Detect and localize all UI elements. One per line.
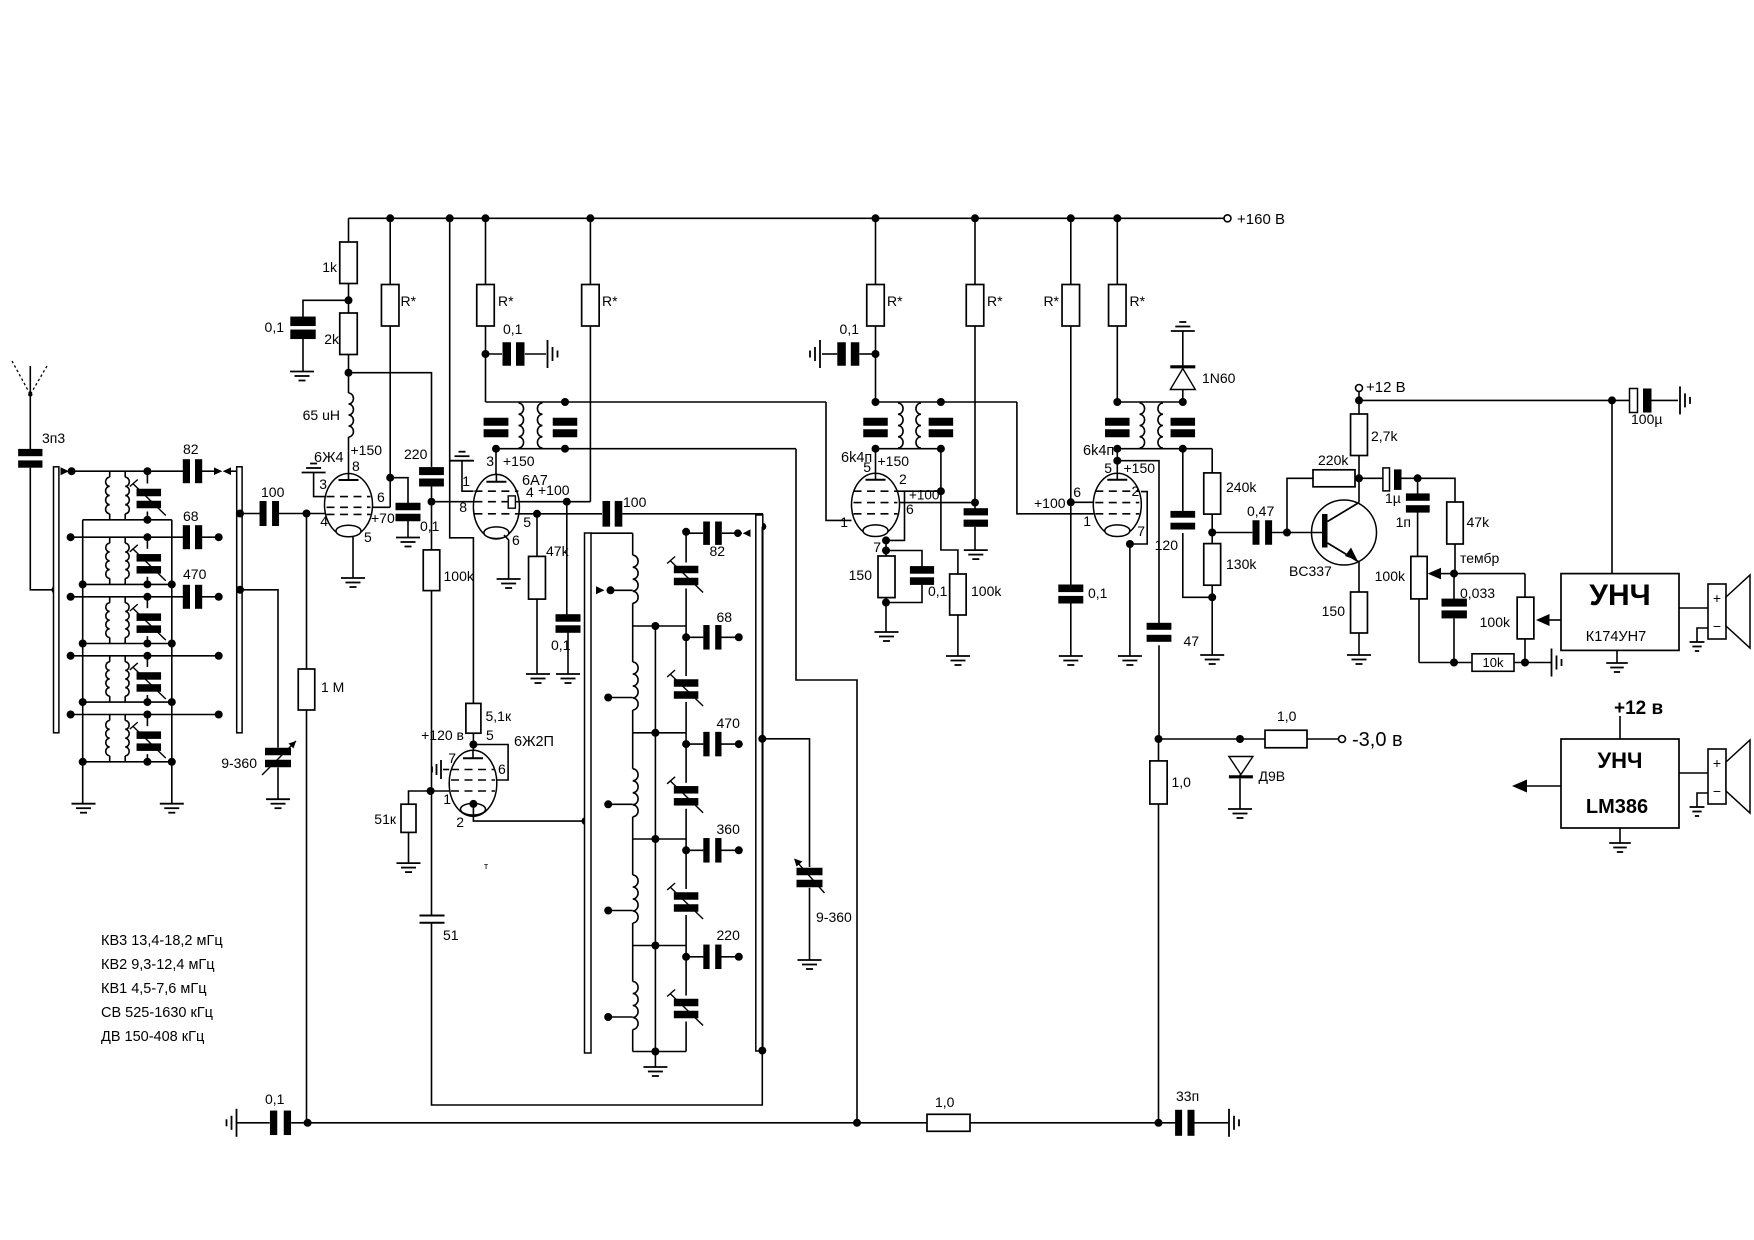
node pin6/0,1 junction [386, 474, 394, 482]
svg-text:220: 220 [404, 446, 428, 462]
capacitor 47 [1147, 623, 1172, 630]
node [561, 445, 569, 453]
node trimmer line top s2 [143, 533, 151, 541]
svg-text:6: 6 [512, 532, 520, 548]
svg-text:R*: R* [1043, 293, 1059, 309]
wire to ground [567, 632, 569, 674]
node [872, 445, 880, 453]
wire diode to ground [1239, 778, 1241, 809]
svg-text:1µ: 1µ [1385, 490, 1401, 506]
svg-text:1k: 1k [322, 259, 338, 275]
svg-text:тембр: тембр [1460, 550, 1500, 566]
node [853, 1119, 861, 1127]
wire section1 top [72, 470, 183, 472]
capacitor 1п [1417, 478, 1419, 496]
wire 6Ж4 cathode to ground [352, 536, 354, 578]
switch bar left (osc bank) [585, 533, 592, 1053]
svg-text:10k: 10k [1483, 655, 1504, 670]
capacitor 0,1 (screen bypass) [556, 614, 581, 622]
tube 6Ж2П (oscillator) [472, 733, 474, 750]
wire pin5 output [519, 513, 602, 515]
svg-text:К174УН7: К174УН7 [1586, 629, 1646, 645]
svg-text:5: 5 [863, 459, 871, 475]
svg-text:R*: R* [1130, 293, 1146, 309]
transistor BC337 [1312, 500, 1377, 565]
svg-text:1,0: 1,0 [1277, 708, 1297, 724]
op-amp УНЧ К174УН7 block [1561, 574, 1679, 651]
svg-text:100: 100 [261, 484, 285, 500]
wire pin2 loop to cathode [886, 491, 905, 540]
svg-text:9-360: 9-360 [816, 909, 852, 925]
svg-text:УНЧ: УНЧ [1589, 579, 1650, 612]
svg-text:2k: 2k [324, 331, 340, 347]
wire 51к to ground [408, 832, 410, 863]
diode Д9В [1229, 757, 1253, 775]
svg-text:51к: 51к [374, 811, 397, 827]
ground (right) [1679, 386, 1681, 414]
node [143, 580, 151, 588]
wire base to 220k [1287, 478, 1313, 532]
node bias divider [1155, 735, 1163, 743]
node bus [651, 835, 659, 843]
node tap contact [604, 800, 612, 808]
capacitor 68 (antenna bank) [183, 525, 190, 549]
svg-text:7: 7 [448, 750, 456, 766]
trimmer capacitor osc s1 [685, 532, 687, 563]
svg-text:2: 2 [456, 814, 464, 830]
wire to ground [809, 888, 811, 960]
svg-text:65 uH: 65 uH [303, 407, 340, 423]
svg-text:360: 360 [717, 821, 741, 837]
resistor R*2 [485, 218, 487, 284]
svg-text:9-360: 9-360 [221, 755, 257, 771]
wire section boundary s3 [633, 732, 686, 734]
wire to ground [1070, 603, 1072, 656]
IF transformer 3 top line [1117, 401, 1183, 403]
wire pin2 to tuning block left bar [473, 804, 585, 821]
node top rail junction [586, 214, 594, 222]
svg-text:6Ж2П: 6Ж2П [514, 734, 554, 750]
wire R*4 down to IF2 [875, 326, 877, 402]
svg-text:СВ 525-1630 кГц: СВ 525-1630 кГц [101, 1005, 213, 1021]
wire 1п to volume pot [1417, 511, 1419, 557]
node pin7 [882, 547, 890, 555]
ground [1228, 808, 1252, 810]
svg-text:+: + [1713, 755, 1721, 771]
IF transformer 1 bottom line [496, 448, 796, 450]
node contact [735, 953, 743, 961]
svg-text:6Ж4: 6Ж4 [314, 450, 344, 466]
svg-text:7: 7 [873, 539, 881, 555]
svg-text:8: 8 [459, 499, 467, 515]
ground [946, 655, 970, 657]
capacitor 0,1 (6k4п screen) [860, 353, 876, 355]
potentiometer 100k (tone wiper) [1524, 574, 1526, 598]
resistor R*3 [589, 218, 591, 284]
node contact [735, 846, 743, 854]
capacitor 100µ (electrolytic) [1612, 399, 1630, 401]
svg-text:+: + [1713, 590, 1721, 606]
node bus [651, 942, 659, 950]
wire cathode bypass [886, 551, 922, 568]
svg-text:1 М: 1 М [321, 679, 344, 695]
node trimmer line top s5 [143, 711, 151, 719]
node [937, 445, 945, 453]
capacitor 100 (to tuning block) [603, 501, 611, 527]
wire cap to contact [202, 470, 214, 472]
wire pin6 loop [473, 745, 508, 781]
svg-text:+150: +150 [1124, 460, 1156, 476]
wire tap [611, 589, 633, 591]
node osc tuning tee [758, 735, 766, 743]
capacitor 68 (osc) [686, 636, 703, 638]
node contact [735, 740, 743, 748]
node antenna on switch bar [52, 586, 60, 594]
wiper arrow into УНЧ1 [1536, 614, 1550, 626]
arrow input УНЧ2 [1527, 785, 1561, 787]
svg-text:5: 5 [1104, 460, 1112, 476]
switch wiper arrow (band contact) [61, 467, 70, 475]
node RF bar to tuning cap [236, 586, 244, 594]
wire section boundary s4 [633, 838, 686, 840]
inductor IF1 primary [519, 403, 524, 448]
wire bias to diode [1159, 738, 1266, 740]
capacitor 3п3 [18, 449, 42, 456]
resistor 2,7k [1358, 456, 1360, 479]
inductor secondary coil s2 [124, 537, 126, 543]
trimmer capacitor osc s2 [685, 626, 687, 676]
capacitor IF2 secondary [929, 418, 954, 426]
wire to 6А7 pin8 [432, 501, 474, 503]
svg-text:150: 150 [849, 567, 873, 583]
node top rail junction [1113, 214, 1121, 222]
svg-text:4: 4 [526, 484, 534, 500]
node +12 rail tee [1355, 396, 1363, 404]
variable capacitor 9-360 (osc) [797, 868, 823, 876]
svg-text:130k: 130k [1226, 556, 1257, 572]
svg-text:7: 7 [1137, 523, 1145, 539]
inductor primary coil s4 [109, 656, 111, 662]
node trimmer-line top [682, 528, 690, 536]
wire 100k down to oscillator grid [431, 591, 433, 791]
svg-text:6: 6 [377, 489, 385, 505]
node [79, 580, 87, 588]
ground [497, 578, 521, 580]
trimmer capacitor osc s4 [685, 839, 687, 889]
ground [526, 673, 550, 675]
wire УНЧ2 to speaker [1679, 772, 1708, 774]
wire R*2 to IF1 transformer [485, 326, 487, 402]
tube 6k4п (IF amplifier 1) [875, 449, 877, 474]
wire pin1 to ground [462, 461, 474, 492]
capacitor 0,1 (screen bypass R*5) [974, 503, 976, 509]
svg-text:100k: 100k [971, 583, 1002, 599]
wire section4 top [71, 655, 219, 657]
node plate tee [937, 487, 945, 495]
svg-text:LM386: LM386 [1586, 796, 1648, 818]
wire pin6 screen [899, 502, 975, 504]
inductor primary coil s5 [109, 715, 111, 721]
tube 6k4п (IF amplifier 2) [1116, 449, 1118, 474]
ground [1690, 806, 1705, 808]
wire to 0,1 decoupling [303, 300, 349, 317]
ground [875, 631, 899, 633]
node trimmer line top s3 [143, 593, 151, 601]
terminal +160V [1224, 215, 1231, 222]
wire volume pot bottom [1418, 599, 1420, 663]
capacitor-ground pin7 [440, 760, 442, 779]
speaker 1 [1708, 584, 1726, 639]
node [143, 698, 151, 706]
wire 130k to ground [1211, 585, 1213, 655]
switch bar left (antenna bank) [54, 467, 59, 733]
capacitor 220 (osc) [686, 956, 703, 958]
svg-text:1п: 1п [1396, 514, 1411, 530]
wire right return bus [171, 520, 173, 804]
svg-text:3: 3 [319, 476, 327, 492]
wire IF1 secondary top to 6k4п grid [826, 402, 852, 520]
resistor 150 (emitter) [1351, 592, 1368, 633]
svg-text:0,1: 0,1 [420, 518, 440, 534]
resistor 150 (cathode) [885, 540, 887, 556]
trimmer capacitor s3 [146, 597, 148, 608]
wire 100k to ground [957, 615, 959, 656]
svg-text:+100: +100 [1034, 495, 1066, 511]
resistor R*4 [875, 218, 877, 284]
capacitor 82 (osc) [686, 532, 703, 534]
wire to -3,0 terminal [1307, 738, 1339, 740]
wire +160V top rail [349, 217, 1225, 219]
svg-text:BC337: BC337 [1289, 563, 1332, 579]
wire R*1 to 6Ж4 pin6 [389, 326, 391, 507]
wire pin2 loop [1130, 492, 1147, 544]
node tuning bar top [758, 523, 766, 531]
node cap tee [682, 633, 690, 641]
svg-text:2,7k: 2,7k [1371, 428, 1398, 444]
svg-text:+12 В: +12 В [1366, 379, 1406, 396]
svg-text:КВ1 4,5-7,6 мГц: КВ1 4,5-7,6 мГц [101, 981, 207, 997]
wire to ground [1194, 1122, 1228, 1124]
svg-text:5: 5 [486, 727, 494, 743]
svg-text:+150: +150 [351, 442, 383, 458]
capacitor IF3 secondary [1171, 418, 1196, 426]
ground [341, 577, 365, 579]
inductor IF2 primary [898, 403, 903, 448]
svg-text:0,1: 0,1 [503, 321, 523, 337]
svg-text:5: 5 [523, 514, 531, 530]
wire +12 to УНЧ1 [1611, 400, 1613, 573]
capacitor IF3 primary [1105, 418, 1130, 426]
ground [556, 673, 580, 675]
variable capacitor 9-360 (RF) [265, 748, 291, 756]
ground [1609, 842, 1631, 844]
node bus [651, 729, 659, 737]
node [561, 398, 569, 406]
svg-text:1N60: 1N60 [1202, 370, 1236, 386]
node top rail junction [482, 214, 490, 222]
node [1608, 396, 1616, 404]
wire cap to contact dot [202, 596, 219, 598]
capacitor 0,1 (top left) [290, 317, 315, 327]
resistor 1,0 (vertical) [1158, 739, 1160, 761]
node [533, 510, 541, 518]
node 0,1 branch [872, 350, 880, 358]
wire УНЧ2 ground [1619, 828, 1621, 843]
terminal -3,0 в [1339, 736, 1346, 743]
svg-text:100: 100 [623, 494, 647, 510]
switch wiper arrow (osc) [596, 586, 605, 594]
inductor osc coil s2 [632, 626, 634, 662]
resistor 1,0 (horizontal) [1265, 730, 1307, 748]
wire 1M to bottom rail [306, 710, 308, 1123]
op-amp УНЧ LM386 block [1561, 739, 1679, 828]
inductor osc coil s3 [632, 733, 634, 769]
wire grid to tube pin1 [431, 790, 450, 792]
svg-text:1: 1 [443, 791, 451, 807]
node [79, 640, 87, 648]
switch bar right (osc bank) [756, 515, 763, 1051]
wire section1 bottom [83, 519, 172, 521]
wire speaker2 ground [1697, 793, 1708, 807]
resistor 100k (mixer grid leak) [431, 502, 433, 550]
capacitor 220 (plate coupling) [419, 467, 444, 475]
capacitor 0,1 (bottom rail) [237, 1122, 270, 1124]
wire pin4 screen +100 [520, 501, 591, 503]
svg-text:т: т [484, 861, 488, 871]
ground [643, 1066, 667, 1068]
wire / contact to bar [722, 532, 742, 534]
wire R*6 down to +100 node [1070, 326, 1072, 502]
svg-text:R*: R* [887, 293, 903, 309]
node [563, 498, 571, 506]
svg-text:ДВ 150-408 кГц: ДВ 150-408 кГц [101, 1029, 204, 1045]
wire 100 cap to tuning bar [622, 514, 762, 527]
wire tap [608, 803, 633, 805]
ground (inverted) [302, 472, 326, 474]
wire contact to bar [231, 470, 237, 472]
wire 0,1 to ground [302, 339, 304, 372]
wire 51 cap to tuning bar bottom [432, 923, 763, 1105]
svg-text:82: 82 [183, 441, 199, 457]
diode 1N60 (detector) [1182, 390, 1184, 403]
wire to ground [974, 527, 976, 550]
wire bottom rail [291, 1122, 927, 1124]
wire section2 bottom [83, 583, 172, 585]
svg-text:3: 3 [486, 453, 494, 469]
inductor IF3 secondary [1158, 403, 1163, 448]
capacitor 0,47 (coupling) [1212, 532, 1252, 534]
svg-text:47k: 47k [1467, 514, 1491, 530]
wire +160 rail to oscillator supply [450, 218, 474, 703]
node [492, 445, 500, 453]
ground (right) [547, 340, 549, 368]
node contact [215, 533, 223, 541]
svg-text:100µ: 100µ [1631, 411, 1662, 427]
inductor osc coil s5 [632, 946, 634, 982]
ground (right) [1551, 649, 1553, 677]
ground [1690, 641, 1705, 643]
svg-text:220: 220 [717, 927, 741, 943]
wire 47 down to -3V node [1158, 645, 1160, 739]
wire section4 bottom [83, 701, 172, 703]
capacitor 82 (antenna bank) [183, 459, 190, 483]
wire section boundary s2 [633, 625, 686, 627]
capacitor 0,1 (cathode bypass) [396, 503, 421, 511]
IF transformer 3 bottom line [1117, 448, 1212, 450]
node on left bar [582, 817, 590, 825]
node [168, 758, 176, 766]
potentiometer 100k (volume) [1411, 556, 1427, 599]
wire AGC line with 47 [1117, 461, 1159, 626]
tube 6Ж4 (RF amplifier) [325, 474, 373, 537]
svg-text:5,1к: 5,1к [486, 708, 512, 724]
svg-text:100k: 100k [444, 568, 475, 584]
ground [798, 959, 822, 961]
node AGC tee [1113, 457, 1121, 465]
svg-text:5: 5 [364, 529, 372, 545]
terminal +12 В [1356, 385, 1363, 392]
node [143, 758, 151, 766]
wire rail continue [970, 1122, 1176, 1124]
inductor IF3 primary [1140, 403, 1145, 448]
resistor 2k [340, 313, 358, 355]
svg-text:+100: +100 [538, 482, 570, 498]
ground [964, 549, 988, 551]
wire tap [608, 910, 633, 912]
trimmer capacitor osc s5 [685, 946, 687, 996]
svg-text:33п: 33п [1176, 1088, 1199, 1104]
resistor 51к [409, 791, 431, 804]
switch bar right (antenna bank) [237, 467, 242, 733]
ground [1059, 655, 1083, 657]
node tone junction [1450, 570, 1458, 578]
capacitor 0,033 [1453, 574, 1455, 603]
switch contact arrows [214, 467, 222, 475]
svg-text:1: 1 [462, 473, 470, 489]
svg-text:0,1: 0,1 [265, 319, 285, 335]
node [79, 758, 87, 766]
node trimmer line top s1 [143, 467, 151, 475]
svg-text:КВ3 13,4-18,2 мГц: КВ3 13,4-18,2 мГц [101, 933, 223, 949]
svg-text:R*: R* [498, 293, 514, 309]
svg-text:1,0: 1,0 [935, 1094, 955, 1110]
svg-text:120: 120 [1155, 537, 1179, 553]
inductor IF2 secondary [916, 403, 921, 448]
wire 0,1 to ground [407, 521, 409, 538]
resistor 240k [1204, 473, 1221, 514]
node [607, 586, 615, 594]
node contact dot [67, 593, 75, 601]
node [168, 698, 176, 706]
node [1179, 445, 1187, 453]
capacitor 33п [1175, 1110, 1182, 1136]
ground [1347, 654, 1371, 656]
node 240k/130k junction [1208, 529, 1216, 537]
capacitor 0,1 (6А7 screen decoupling) [486, 353, 503, 355]
wire R*7 down to IF3 [1116, 326, 1118, 402]
wire pin7 bypass [443, 769, 449, 771]
node top rail junction [1067, 214, 1075, 222]
inductor IF1 secondary [537, 403, 542, 448]
ground [1118, 655, 1142, 657]
IF transformer 2 top line [876, 401, 1017, 403]
inductor secondary coil s5 [124, 715, 126, 721]
wire section5 top [71, 714, 219, 716]
wire to bottom rail [1158, 804, 1160, 1123]
wire pin2 plate [898, 490, 941, 492]
node bus [651, 622, 659, 630]
wire section2 top [71, 536, 183, 538]
